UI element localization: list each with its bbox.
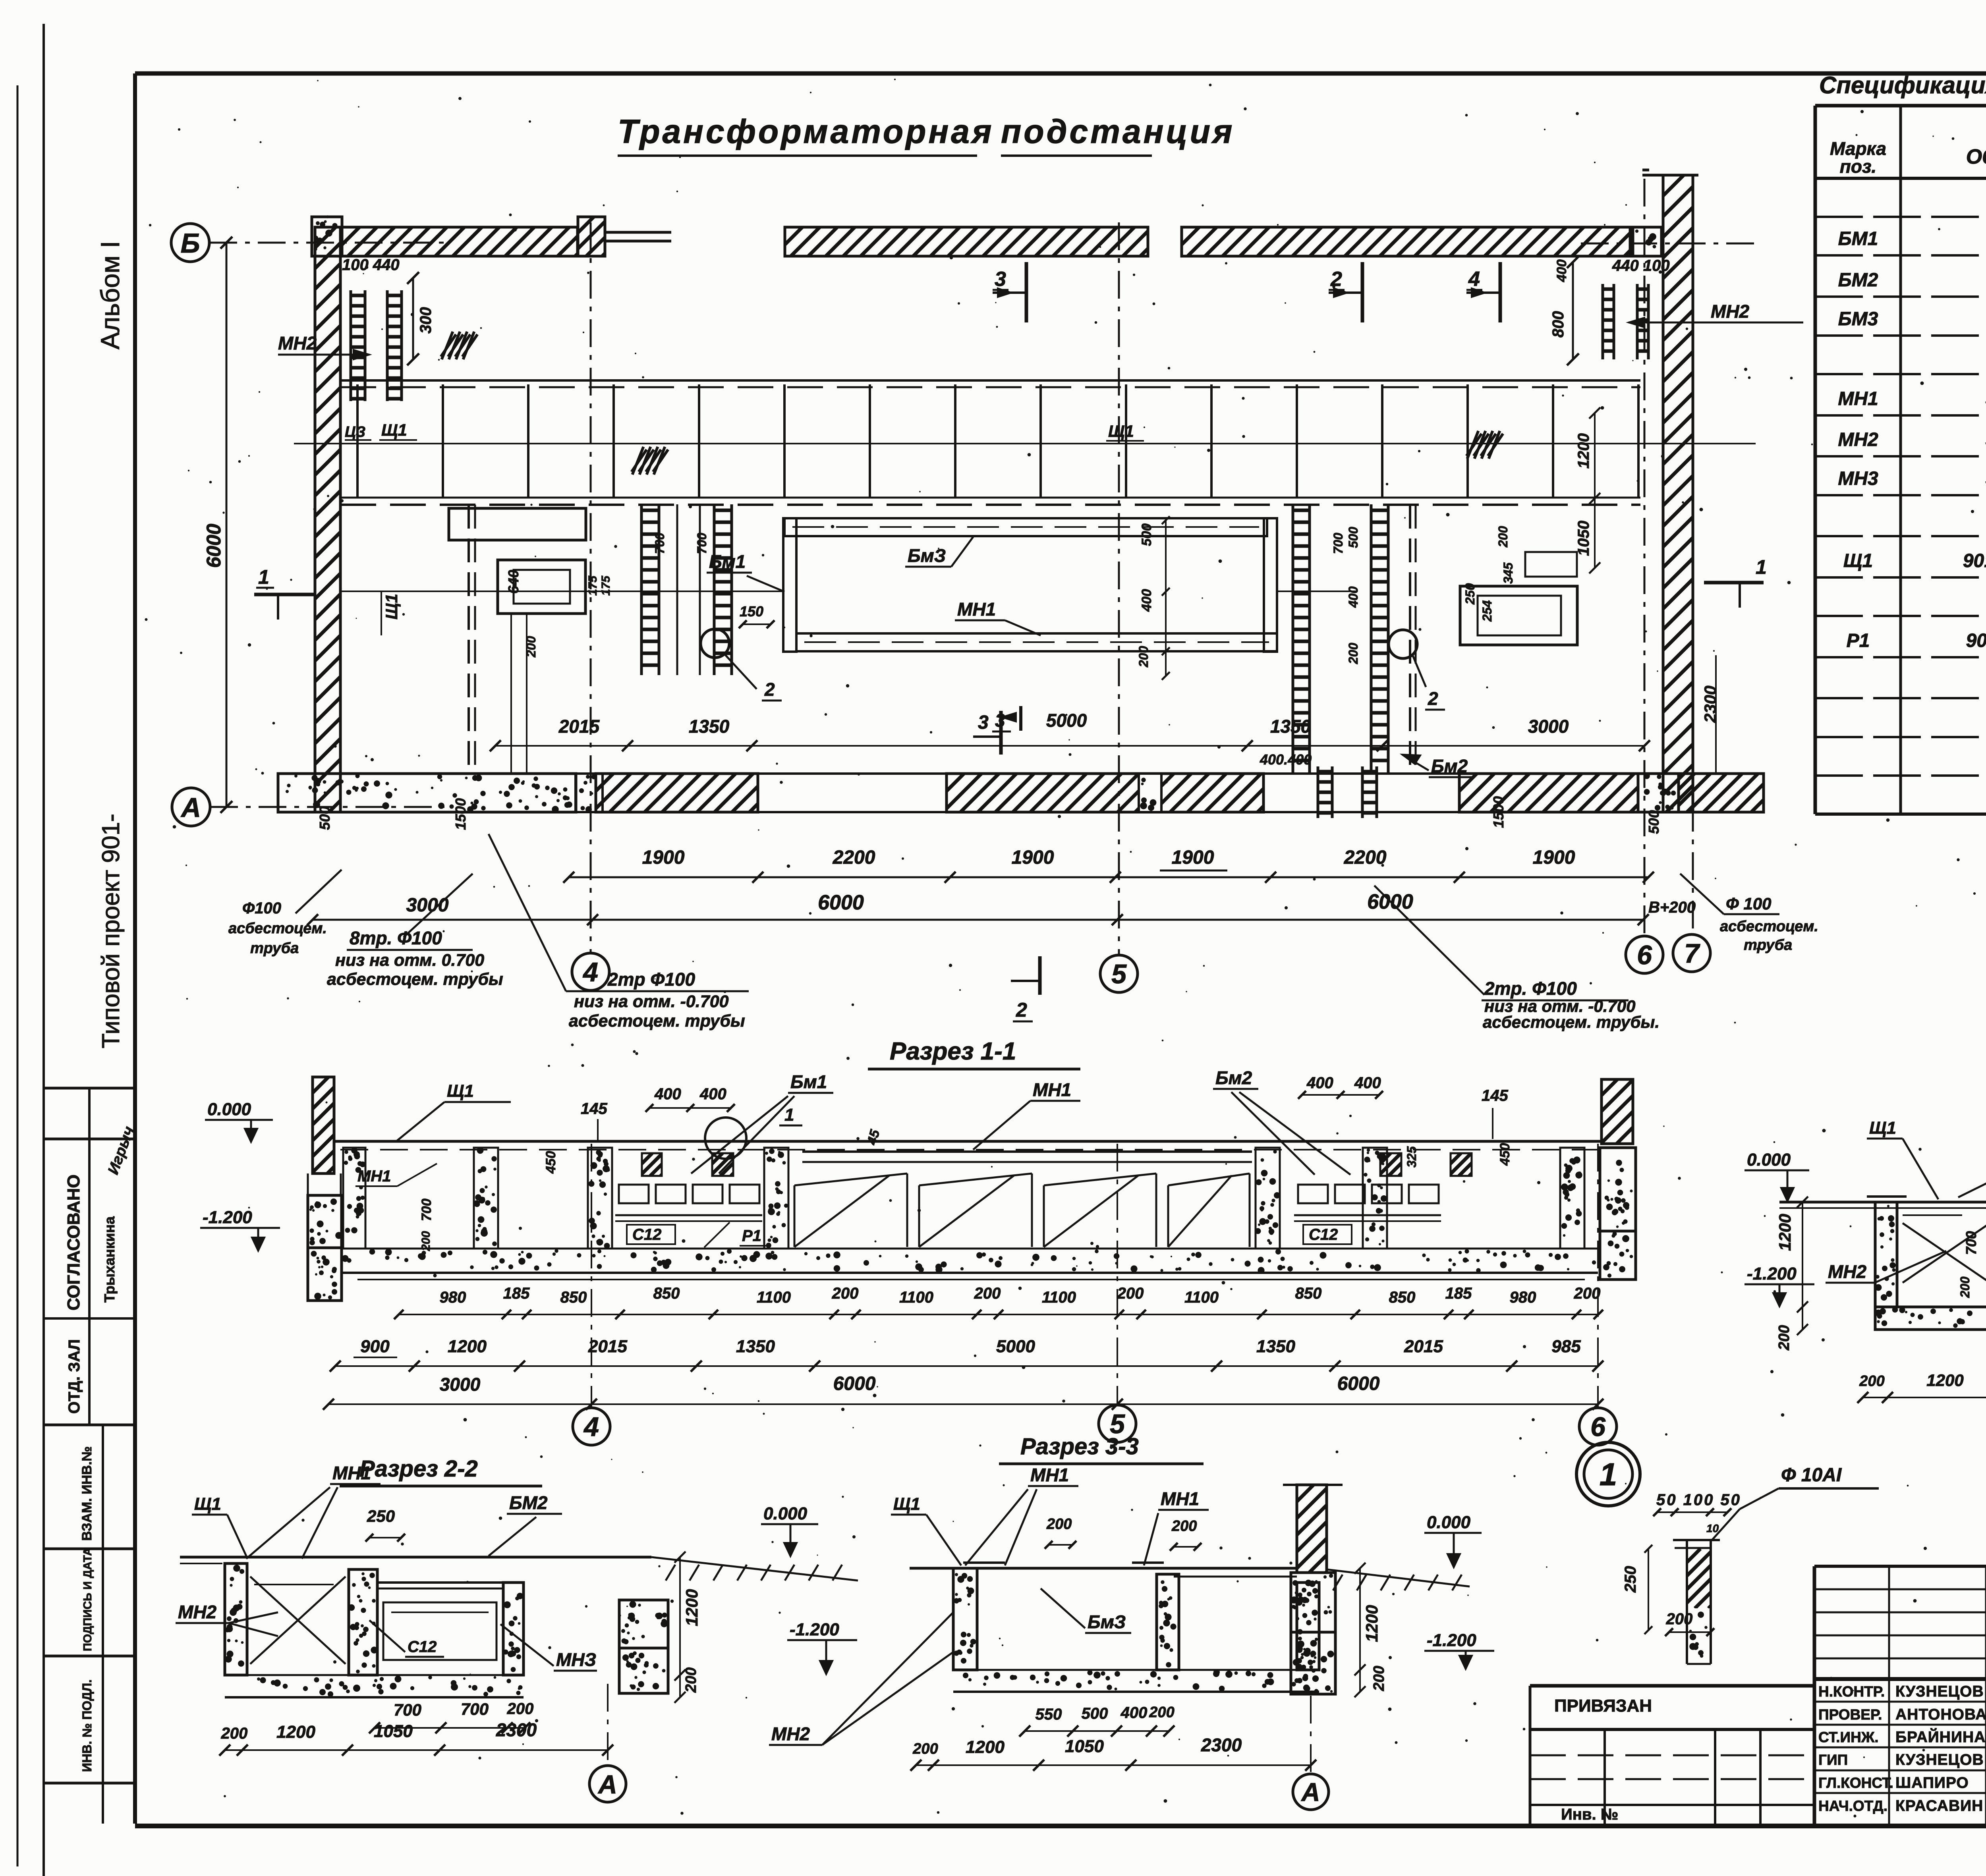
svg-text:Б: Б: [181, 228, 200, 259]
svg-text:150: 150: [740, 603, 763, 620]
svg-text:5000: 5000: [996, 1337, 1035, 1356]
svg-text:1: 1: [1756, 556, 1767, 578]
svg-text:850: 850: [1389, 1289, 1416, 1306]
svg-text:1: 1: [258, 566, 269, 588]
svg-text:6000: 6000: [818, 891, 864, 914]
svg-text:500: 500: [1646, 810, 1662, 834]
svg-text:850: 850: [1295, 1285, 1322, 1302]
svg-text:700: 700: [695, 533, 709, 554]
svg-text:901 КЖН, Щ1: 901 КЖН, Щ1: [1963, 550, 1986, 571]
svg-text:6: 6: [1637, 940, 1652, 970]
svg-text:СОГЛАСОВАНО: СОГЛАСОВАНО: [64, 1174, 83, 1310]
svg-text:700: 700: [653, 533, 667, 554]
svg-text:МН2: МН2: [1711, 301, 1750, 322]
svg-text:0.000: 0.000: [207, 1100, 251, 1119]
svg-text:6: 6: [1590, 1412, 1606, 1442]
svg-text:БМ2: БМ2: [1838, 270, 1878, 291]
svg-text:200: 200: [1666, 1610, 1693, 1628]
svg-text:185: 185: [503, 1285, 530, 1302]
svg-text:1200: 1200: [1362, 1605, 1381, 1642]
svg-text:250: 250: [1463, 583, 1477, 605]
svg-text:АНТОНОВА: АНТОНОВА: [1895, 1706, 1986, 1723]
svg-text:1050: 1050: [1575, 521, 1592, 556]
svg-text:2015: 2015: [588, 1337, 627, 1356]
svg-text:400: 400: [1139, 589, 1154, 612]
svg-text:Щ1: Щ1: [1869, 1118, 1896, 1138]
svg-text:1200: 1200: [966, 1737, 1005, 1757]
svg-text:2: 2: [1016, 999, 1027, 1021]
svg-text:Спецификация элементов к тра: Спецификация элементов к трансформаторно…: [1819, 72, 1986, 98]
svg-text:500: 500: [1346, 527, 1360, 548]
svg-text:Ф 10АI: Ф 10АI: [1781, 1465, 1842, 1486]
svg-text:10: 10: [1706, 1522, 1719, 1534]
svg-text:ШАПИРО: ШАПИРО: [1895, 1774, 1969, 1791]
svg-text:Трыханкина: Трыханкина: [101, 1216, 118, 1303]
svg-text:1200: 1200: [1926, 1371, 1963, 1390]
svg-text:КУЗНЕЦОВ: КУЗНЕЦОВ: [1895, 1751, 1984, 1768]
svg-text:2: 2: [1330, 268, 1342, 291]
svg-text:700: 700: [1331, 533, 1345, 554]
svg-text:5: 5: [1111, 959, 1127, 989]
svg-text:1500: 1500: [1490, 796, 1507, 828]
svg-text:450: 450: [543, 1151, 558, 1174]
svg-text:ПРОВЕР.: ПРОВЕР.: [1818, 1706, 1882, 1723]
svg-text:200: 200: [1574, 1285, 1601, 1302]
svg-text:Бм1: Бм1: [709, 551, 746, 572]
svg-text:1: 1: [784, 1105, 794, 1125]
svg-text:50 100 50: 50 100 50: [1656, 1491, 1741, 1509]
svg-text:ЦЗ: ЦЗ: [345, 424, 365, 440]
svg-text:200: 200: [683, 1668, 699, 1693]
svg-text:4: 4: [1468, 268, 1480, 291]
svg-text:200: 200: [1117, 1285, 1144, 1302]
svg-text:1100: 1100: [757, 1289, 791, 1306]
svg-text:1200: 1200: [276, 1722, 315, 1742]
svg-text:1500: 1500: [452, 798, 469, 830]
svg-text:400: 400: [1554, 259, 1569, 282]
svg-text:0.000: 0.000: [1747, 1150, 1791, 1170]
svg-text:6000: 6000: [1337, 1373, 1380, 1394]
svg-text:МНЗ: МНЗ: [556, 1649, 596, 1670]
svg-text:200: 200: [1046, 1516, 1072, 1532]
svg-text:КУЗНЕЦОВ: КУЗНЕЦОВ: [1895, 1683, 1984, 1700]
svg-text:С12: С12: [1309, 1226, 1338, 1243]
svg-text:200: 200: [912, 1741, 938, 1757]
svg-text:Щ1: Щ1: [893, 1494, 920, 1514]
svg-text:6000: 6000: [833, 1373, 876, 1394]
svg-text:1350: 1350: [1270, 716, 1311, 737]
svg-text:Р1: Р1: [742, 1227, 761, 1245]
svg-text:400: 400: [1121, 1704, 1148, 1722]
svg-text:640: 640: [505, 570, 522, 594]
svg-text:1200: 1200: [682, 1589, 701, 1626]
svg-text:175: 175: [586, 575, 599, 596]
svg-text:2300: 2300: [1201, 1735, 1242, 1755]
svg-text:А: А: [597, 1770, 617, 1799]
svg-text:МН2: МН2: [1838, 429, 1878, 450]
svg-text:С12: С12: [408, 1638, 437, 1656]
svg-text:2015: 2015: [1404, 1337, 1443, 1356]
svg-text:200: 200: [507, 1700, 534, 1718]
svg-text:Бм2: Бм2: [1431, 756, 1468, 776]
svg-text:200: 200: [1149, 1704, 1174, 1721]
svg-text:-1.200: -1.200: [1747, 1264, 1797, 1283]
svg-text:200: 200: [1496, 526, 1510, 548]
svg-text:БМ3: БМ3: [1838, 309, 1878, 330]
svg-text:450: 450: [1497, 1143, 1513, 1166]
svg-text:БмЗ: БмЗ: [1088, 1612, 1126, 1632]
svg-text:4: 4: [583, 1412, 599, 1442]
svg-text:1350: 1350: [736, 1337, 775, 1356]
svg-text:254: 254: [1480, 600, 1494, 622]
svg-text:1100: 1100: [1042, 1289, 1076, 1306]
svg-text:асбестоцем. трубы: асбестоцем. трубы: [327, 970, 503, 989]
svg-text:В+200: В+200: [1648, 899, 1696, 916]
svg-text:200: 200: [1859, 1373, 1884, 1390]
svg-text:СТ.ИНЖ.: СТ.ИНЖ.: [1818, 1729, 1879, 1745]
svg-text:А: А: [180, 792, 201, 823]
svg-text:Щ1: Щ1: [194, 1494, 221, 1514]
svg-text:асбестоцем. трубы: асбестоцем. трубы: [569, 1011, 745, 1031]
svg-text:200: 200: [1136, 646, 1151, 668]
svg-text:БМ2: БМ2: [509, 1492, 548, 1513]
svg-text:МН2: МН2: [278, 333, 317, 353]
svg-text:НАЧ.ОТД.: НАЧ.ОТД.: [1818, 1798, 1887, 1814]
svg-text:ГИП: ГИП: [1818, 1752, 1848, 1768]
svg-text:400.400: 400.400: [1260, 751, 1312, 768]
svg-text:900: 900: [360, 1337, 390, 1356]
svg-text:БМ1: БМ1: [1838, 228, 1878, 249]
svg-text:Бм1: Бм1: [790, 1071, 827, 1092]
svg-text:поз.: поз.: [1840, 156, 1876, 177]
svg-text:асбестоцем.: асбестоцем.: [228, 920, 327, 937]
svg-text:МН1: МН1: [1033, 1079, 1071, 1100]
svg-text:МН3: МН3: [1838, 468, 1878, 489]
svg-text:1: 1: [1600, 1457, 1617, 1492]
svg-text:2тр Ф100: 2тр Ф100: [607, 969, 695, 990]
svg-text:200: 200: [1346, 643, 1360, 664]
svg-text:1200: 1200: [1575, 433, 1592, 469]
svg-text:1900: 1900: [1012, 847, 1054, 868]
svg-text:400: 400: [1346, 586, 1360, 608]
svg-text:Ф100: Ф100: [242, 899, 281, 917]
svg-text:3: 3: [995, 268, 1006, 291]
svg-text:400: 400: [1306, 1074, 1333, 1092]
svg-text:700: 700: [461, 1700, 489, 1718]
svg-text:345: 345: [1501, 562, 1515, 584]
svg-text:1050: 1050: [374, 1722, 413, 1741]
svg-text:700: 700: [419, 1199, 434, 1221]
svg-text:-1.200: -1.200: [790, 1620, 839, 1639]
svg-text:-1.200: -1.200: [203, 1208, 252, 1227]
svg-text:труба: труба: [1744, 937, 1792, 953]
svg-text:400: 400: [1354, 1074, 1381, 1092]
svg-text:ОТД. ЗАЛ: ОТД. ЗАЛ: [66, 1339, 83, 1414]
svg-text:подстанция: подстанция: [1001, 113, 1234, 150]
svg-text:Щ1: Щ1: [381, 421, 407, 439]
svg-text:1900: 1900: [1172, 847, 1214, 868]
svg-text:2300: 2300: [496, 1720, 537, 1740]
svg-text:Типовой проект 901-: Типовой проект 901-: [97, 814, 125, 1048]
svg-text:500: 500: [1082, 1705, 1108, 1722]
svg-text:ВЗАМ. ИНВ.№: ВЗАМ. ИНВ.№: [79, 1446, 95, 1541]
svg-text:300: 300: [417, 307, 435, 334]
svg-text:500: 500: [317, 806, 333, 830]
svg-text:МН2: МН2: [1828, 1261, 1867, 1282]
svg-text:Трансформаторная: Трансформаторная: [618, 113, 994, 150]
svg-text:7: 7: [1684, 938, 1700, 969]
svg-text:200: 200: [419, 1231, 433, 1251]
svg-text:ИНВ. № ПОДЛ.: ИНВ. № ПОДЛ.: [80, 1679, 94, 1772]
svg-text:МН1: МН1: [957, 599, 996, 620]
svg-text:С12: С12: [632, 1226, 661, 1243]
svg-text:200: 200: [1171, 1518, 1197, 1534]
svg-text:ПОДПИСЬ И ДАТА: ПОДПИСЬ И ДАТА: [81, 1548, 94, 1651]
svg-text:1050: 1050: [1065, 1737, 1104, 1756]
svg-text:4: 4: [582, 957, 598, 987]
svg-text:ГЛ.КОНСТ.: ГЛ.КОНСТ.: [1818, 1775, 1893, 1791]
svg-text:200: 200: [1776, 1325, 1793, 1351]
svg-text:Инв. №: Инв. №: [1561, 1806, 1618, 1823]
svg-text:400: 400: [699, 1085, 726, 1103]
svg-text:МН2: МН2: [771, 1724, 810, 1744]
svg-text:500: 500: [1139, 523, 1154, 546]
svg-text:250: 250: [1622, 1566, 1639, 1593]
svg-text:труба: труба: [250, 940, 299, 957]
svg-text:850: 850: [653, 1285, 680, 1302]
svg-text:МН1: МН1: [1161, 1488, 1199, 1509]
svg-text:175: 175: [599, 575, 612, 596]
svg-text:5000: 5000: [1046, 710, 1087, 731]
svg-text:0.000: 0.000: [1427, 1513, 1471, 1532]
svg-text:МН1: МН1: [332, 1463, 371, 1483]
svg-text:Разрез 1-1: Разрез 1-1: [890, 1038, 1016, 1065]
svg-text:325: 325: [1404, 1146, 1419, 1168]
svg-text:2: 2: [1428, 688, 1438, 709]
svg-text:400: 400: [654, 1085, 681, 1103]
svg-text:Щ1: Щ1: [1843, 550, 1873, 571]
svg-text:200: 200: [221, 1725, 248, 1742]
svg-text:2200: 2200: [833, 847, 875, 868]
svg-text:700: 700: [1963, 1231, 1979, 1255]
svg-text:КРАСАВИН: КРАСАВИН: [1895, 1797, 1983, 1814]
svg-text:А: А: [1301, 1778, 1320, 1807]
svg-text:8тр. Ф100: 8тр. Ф100: [350, 928, 442, 948]
svg-text:Щ1: Щ1: [382, 594, 401, 620]
svg-text:Щ1: Щ1: [1108, 422, 1134, 440]
svg-text:3: 3: [995, 710, 1005, 731]
svg-text:-1.200: -1.200: [1427, 1631, 1476, 1650]
svg-text:3: 3: [978, 712, 989, 733]
svg-text:200: 200: [1958, 1276, 1972, 1298]
svg-text:Н.КОНТР.: Н.КОНТР.: [1818, 1683, 1885, 1700]
svg-text:асбестоцем.: асбестоцем.: [1720, 918, 1818, 935]
svg-text:БмЗ: БмЗ: [908, 545, 946, 566]
svg-text:низ на отм. -0.700: низ на отм. -0.700: [574, 992, 729, 1011]
svg-text:185: 185: [1445, 1285, 1472, 1302]
svg-text:Разрез 3-3: Разрез 3-3: [1020, 1434, 1139, 1459]
svg-text:700: 700: [394, 1700, 421, 1719]
svg-text:1100: 1100: [1184, 1289, 1219, 1306]
svg-text:низ на отм. 0.700: низ на отм. 0.700: [335, 951, 484, 970]
svg-text:2015: 2015: [558, 716, 600, 737]
svg-text:6000: 6000: [203, 524, 225, 568]
svg-text:980: 980: [1510, 1289, 1536, 1306]
svg-text:Обозначение: Обозначение: [1966, 145, 1986, 168]
svg-text:1200: 1200: [1775, 1214, 1794, 1251]
svg-text:250: 250: [367, 1507, 395, 1525]
svg-text:980: 980: [440, 1289, 466, 1306]
svg-text:асбестоцем. трубы.: асбестоцем. трубы.: [1483, 1013, 1660, 1031]
svg-text:200: 200: [832, 1285, 859, 1302]
svg-text:МН1: МН1: [1030, 1465, 1069, 1485]
svg-text:200: 200: [974, 1285, 1001, 1302]
svg-text:985: 985: [1551, 1337, 1581, 1356]
svg-text:2тр. Ф100: 2тр. Ф100: [1484, 978, 1577, 999]
svg-text:100 440: 100 440: [342, 256, 400, 274]
svg-text:МН1: МН1: [1838, 388, 1878, 409]
svg-text:1200: 1200: [448, 1337, 487, 1356]
svg-text:0.000: 0.000: [763, 1504, 808, 1523]
svg-text:2200: 2200: [1344, 847, 1387, 868]
svg-text:1900: 1900: [1533, 847, 1575, 868]
svg-text:Бм2: Бм2: [1215, 1067, 1252, 1088]
svg-text:Разрез 2-2: Разрез 2-2: [359, 1456, 478, 1482]
svg-text:850: 850: [560, 1289, 587, 1306]
svg-text:2: 2: [764, 679, 775, 700]
svg-text:1100: 1100: [899, 1289, 933, 1306]
svg-text:550: 550: [1036, 1706, 1062, 1723]
svg-text:Альбом I: Альбом I: [95, 241, 125, 349]
svg-text:МН2: МН2: [178, 1602, 217, 1622]
svg-text:1350: 1350: [689, 716, 730, 737]
svg-text:3000: 3000: [406, 895, 449, 916]
svg-text:МН1: МН1: [357, 1168, 391, 1185]
svg-text:901 КЖН, Р1: 901 КЖН, Р1: [1966, 630, 1986, 651]
svg-text:145: 145: [1482, 1087, 1508, 1104]
svg-text:Р1: Р1: [1847, 630, 1870, 651]
svg-text:3000: 3000: [440, 1374, 481, 1395]
svg-text:200: 200: [1371, 1666, 1387, 1691]
svg-text:1350: 1350: [1256, 1337, 1295, 1356]
svg-text:800: 800: [1549, 311, 1567, 338]
svg-text:Ф 100: Ф 100: [1726, 894, 1772, 913]
svg-text:Щ1: Щ1: [447, 1081, 474, 1101]
svg-text:БРАЙНИНА: БРАЙНИНА: [1895, 1728, 1986, 1746]
svg-text:ПРИВЯЗАН: ПРИВЯЗАН: [1554, 1696, 1652, 1716]
svg-text:3000: 3000: [1528, 716, 1569, 737]
svg-text:145: 145: [581, 1100, 607, 1117]
svg-text:1900: 1900: [642, 847, 685, 868]
